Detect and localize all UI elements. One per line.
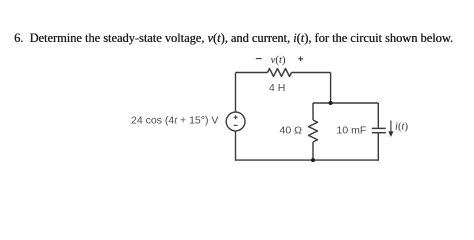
capacitor C (10 mF) plates xyxy=(372,128,386,132)
wire: bottom rail xyxy=(236,159,379,161)
svg-text:i(t): i(t) xyxy=(395,120,409,132)
wire: left vertical top (source to top rail) xyxy=(235,73,237,113)
voltage source minus sign xyxy=(234,124,238,126)
voltage source VS circle xyxy=(226,112,245,131)
current arrow i(t) xyxy=(389,121,393,137)
inductor L (4 H) zigzag xyxy=(268,69,292,77)
wire: resistor branch top xyxy=(312,103,314,120)
wire: resistor branch bottom xyxy=(312,142,314,161)
wire: capacitor branch bottom xyxy=(377,133,379,161)
svg-text:24 cos (4t + 15°) V: 24 cos (4t + 15°) V xyxy=(131,115,218,127)
svg-text:4 H: 4 H xyxy=(269,82,285,94)
resistor R (40 ohm) zigzag xyxy=(309,120,318,142)
wire: left vertical bottom (source to bottom rail) xyxy=(235,131,237,161)
svg-text:40 Ω: 40 Ω xyxy=(280,124,303,136)
node B junction dot (bottom) xyxy=(311,158,315,162)
wire: top rail left segment xyxy=(236,72,268,74)
wire: right vertical from inductor down to node A xyxy=(330,73,332,104)
problem statement text xyxy=(14,32,453,44)
label: minus polarity of v(t) xyxy=(256,58,262,60)
svg-text:v(t): v(t) xyxy=(271,54,286,66)
wire: capacitor branch top xyxy=(377,103,379,128)
voltage source plus sign xyxy=(234,115,238,125)
node A junction dot (top) xyxy=(329,101,333,105)
svg-text:10 mF: 10 mF xyxy=(337,124,367,136)
wire: top rail right segment to corner xyxy=(292,72,331,74)
label: plus polarity of v(t) xyxy=(298,56,303,61)
wire: top node rail xyxy=(313,102,378,104)
